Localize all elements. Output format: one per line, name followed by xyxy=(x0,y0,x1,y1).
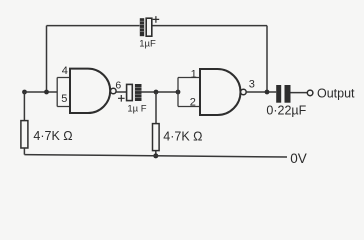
wire: right vertical from top rail down to output node xyxy=(266,26,268,92)
node: junction of left vertical and input wire xyxy=(44,90,49,95)
capacitor C3 0.22uF right plate xyxy=(285,85,291,103)
svg-text:1µF: 1µF xyxy=(139,38,156,49)
wire: gate1 output to C2 xyxy=(116,91,127,93)
node: junction of R1 and gate1 input wire xyxy=(22,90,27,95)
capacitor C2 negative hatched plate xyxy=(135,84,142,101)
wire: gate2 output to C3 xyxy=(246,91,276,93)
wire: gate 1 input tie bracket (pins 4 and 5 joined) xyxy=(57,78,70,107)
wire: C2 to gate 2 input bracket xyxy=(142,91,179,93)
svg-text:4·7K Ω: 4·7K Ω xyxy=(163,129,202,143)
wire: R1 top connection xyxy=(23,92,25,121)
svg-text:5: 5 xyxy=(61,93,67,105)
NAND gate IC1b body xyxy=(200,69,241,115)
svg-text:3: 3 xyxy=(249,78,255,90)
wire: C3 to output terminal xyxy=(291,92,308,94)
output terminal circle xyxy=(307,90,313,96)
wire: R1 bottom to 0V rail xyxy=(23,148,25,155)
wire: R2 to 0V rail xyxy=(155,151,157,156)
svg-text:1: 1 xyxy=(191,68,197,80)
svg-text:4·7K Ω: 4·7K Ω xyxy=(33,129,72,143)
capacitor C1 1uF (electrolytic, top feedback) negative hatched plate xyxy=(140,18,144,36)
svg-text:1µ F: 1µ F xyxy=(127,104,146,115)
IC1b inverting output bubble xyxy=(241,89,247,95)
node: junction to R2 xyxy=(154,90,159,95)
C1 plus polarity sign xyxy=(153,16,160,23)
svg-text:0V: 0V xyxy=(290,151,307,166)
wire: top rail right segment xyxy=(152,25,267,27)
wire: left vertical from top rail down to gate 1 input node xyxy=(46,26,48,92)
capacitor C3 0.22uF left plate xyxy=(276,85,281,103)
svg-text:2: 2 xyxy=(190,97,196,109)
NAND gate IC1a body xyxy=(70,69,110,113)
wire: gate 2 input tie bracket (pins 1 and 2 joined) xyxy=(178,78,200,107)
resistor R1 4.7K body xyxy=(21,121,28,148)
svg-text:0·22µF: 0·22µF xyxy=(266,104,306,118)
C2 plus polarity sign xyxy=(118,95,125,102)
capacitor C2 1uF positive plate (open) xyxy=(127,84,133,100)
wire: gate 1 input horizontal xyxy=(25,91,58,93)
IC1a inverting output bubble xyxy=(111,88,117,94)
resistor R2 4.7K body xyxy=(153,124,160,151)
node: gate 2 input node on tie bracket xyxy=(176,90,181,95)
svg-text:6: 6 xyxy=(115,80,121,92)
capacitor C1 positive plate (open) xyxy=(146,18,152,36)
node: R2 junction on 0V rail xyxy=(153,153,158,158)
wire: down to R2 xyxy=(155,92,157,124)
svg-text:Output: Output xyxy=(317,87,355,101)
wire: top rail left segment xyxy=(47,25,140,27)
svg-text:4: 4 xyxy=(62,65,68,77)
node: junction of feedback vertical and output wire xyxy=(265,90,270,95)
wire: 0V bottom rail xyxy=(24,155,287,157)
